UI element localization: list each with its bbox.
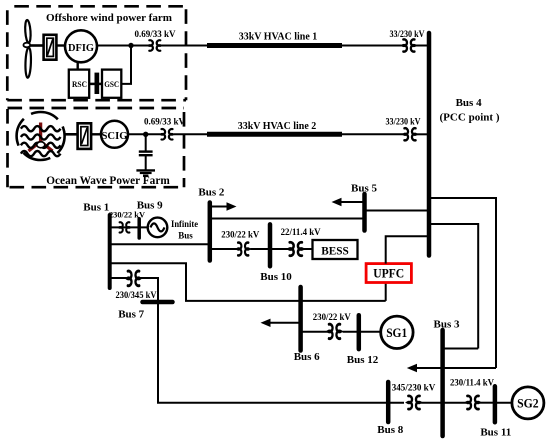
value label 230/345 kV (116, 290, 157, 300)
transformer T1 0.69/33 kV (149, 40, 161, 51)
svg-text:Bus 11: Bus 11 (480, 427, 511, 439)
ocean waves (21, 126, 61, 156)
svg-text:Offshore wind power farm: Offshore wind power farm (46, 12, 172, 24)
wave energy device circle (17, 112, 65, 160)
junction node SCIG output (143, 132, 148, 137)
wire feeder to Bus 3 (443, 348, 479, 350)
wire DFIG to RSC (76, 62, 78, 69)
bus bar Bus 1 (108, 215, 112, 288)
svg-text:0.69/33 kV: 0.69/33 kV (144, 117, 185, 127)
label: Bus 6 (294, 351, 320, 363)
transformer T11 230/11.4 kV (467, 396, 480, 409)
gearbox 1 (44, 35, 57, 60)
label: Bus 12 (347, 354, 379, 366)
label: Bus 3 (434, 319, 460, 331)
value label 0.69/33 kV (135, 29, 176, 39)
transformer T5 230/22 kV (119, 222, 130, 232)
svg-text:Bus 8: Bus 8 (377, 424, 403, 436)
wave turbine rotor (red spokes) (29, 123, 53, 152)
label: (PCC point ) (440, 112, 500, 124)
wire Bus 1 to Bus 2 (110, 243, 210, 245)
label: Bus 8 (377, 424, 403, 436)
svg-text:Bus 2: Bus 2 (198, 187, 224, 199)
wire T2 to HVAC line 2 (174, 133, 208, 135)
label: Offshore wind power farm (46, 12, 172, 24)
bus bar Bus 2 (208, 203, 213, 261)
transformer T10 345/230 kV (408, 396, 421, 409)
wire T4 to Bus 4 (417, 133, 430, 135)
bus bar Bus 7 (143, 300, 173, 305)
shunt capacitor (139, 134, 153, 170)
label: Bus 9 (137, 200, 163, 212)
label: Bus 5 (351, 183, 377, 195)
svg-text:SG2: SG2 (517, 396, 539, 411)
label: 33kV HVAC line 2 (238, 121, 317, 132)
value label 33/230 kV (line 2) (386, 117, 421, 127)
svg-text:Bus 3: Bus 3 (434, 319, 460, 331)
svg-text:Ocean Wave Power Farm: Ocean Wave Power Farm (46, 175, 170, 187)
svg-text:Bus 9: Bus 9 (137, 200, 163, 212)
wire SCIG to transformer T2 (128, 133, 160, 135)
svg-text:Bus 6: Bus 6 (294, 351, 320, 363)
value label 230/22 kV (T6) (221, 230, 259, 240)
value label 22/11.4 kV (281, 227, 321, 237)
transformer T4 33/230 kV (404, 128, 417, 140)
svg-text:Bus 7: Bus 7 (118, 308, 144, 320)
label: 33kV HVAC line 1 (239, 31, 318, 42)
wire Bus 12 to SG1 (359, 331, 380, 333)
svg-text:UPFC: UPFC (373, 267, 404, 281)
wire Bus 4 right inner feeder (429, 224, 478, 349)
svg-text:33/230 kV: 33/230 kV (386, 117, 421, 127)
svg-text:33/230 kV: 33/230 kV (390, 29, 425, 39)
label: Bus 1 (83, 202, 109, 214)
value label 230/11.4 kV (450, 378, 494, 388)
wire UPFC to Bus 4 (386, 236, 429, 263)
load arrow at Bus 5 (332, 198, 365, 206)
wire Bus 2 to T6 (210, 248, 237, 250)
wire DFIG to transformer T1 (97, 45, 148, 47)
wire UPFC shunt lower (385, 283, 387, 301)
label: Bus 10 (260, 271, 292, 283)
svg-text:BESS: BESS (321, 243, 349, 257)
svg-text:(PCC point ): (PCC point ) (440, 112, 500, 124)
ground (136, 170, 155, 175)
transformer T3 33/230 kV (403, 39, 416, 51)
device UPFC (366, 264, 411, 283)
wire Bus 4 right upper corner feeder (429, 198, 496, 368)
label: Bus 7 (118, 308, 144, 320)
svg-text:SCIG: SCIG (102, 131, 128, 142)
svg-text:230/22 kV: 230/22 kV (221, 230, 259, 240)
wire GSC to junction (121, 46, 131, 84)
svg-text:Bus 10: Bus 10 (260, 271, 292, 283)
wire T3 to Bus 4 (416, 45, 430, 47)
offshore wind farm boundary box (7, 6, 186, 100)
value label 230/22 kV (T9) (313, 312, 351, 322)
wire gearbox to DFIG (56, 44, 65, 46)
transformer T9 230/22 kV (328, 324, 341, 338)
value label 0.69/33 kV (wave) (144, 117, 185, 127)
label: Ocean Wave Power Farm (46, 175, 170, 187)
gearbox 2 (78, 123, 92, 149)
svg-text:0.69/33 kV: 0.69/33 kV (135, 29, 176, 39)
transformer T7 22/11.4 kV (289, 242, 303, 255)
svg-text:Infinite: Infinite (171, 220, 198, 230)
svg-text:230/345 kV: 230/345 kV (116, 290, 157, 300)
generator SG1 (381, 316, 413, 348)
converter GSC (102, 70, 121, 98)
bus bar Bus 4 (427, 33, 432, 256)
svg-text:22/11.4 kV: 22/11.4 kV (281, 227, 321, 237)
wire gearbox 2 to SCIG (91, 133, 101, 135)
svg-text:Bus 4: Bus 4 (456, 97, 482, 109)
svg-text:33kV HVAC line 1: 33kV HVAC line 1 (239, 31, 318, 42)
wire wave device to gearbox 2 (65, 133, 78, 136)
label: Bus 2 (198, 187, 224, 199)
svg-text:Bus: Bus (178, 231, 193, 241)
bus bar Bus 11 (493, 386, 498, 422)
value label 345/230 kV (392, 382, 436, 392)
wire HVAC line 1 to transformer T3 (342, 45, 402, 47)
transformer T6 230/22 kV (237, 243, 249, 256)
label: Bus 4 (456, 97, 482, 109)
value label 230/22 kV (T5) (109, 210, 145, 219)
svg-text:SG1: SG1 (386, 325, 407, 340)
svg-text:Bus 12: Bus 12 (347, 354, 379, 366)
wire T11 to Bus 11 (480, 402, 495, 404)
wire Bus 11 to SG2 (495, 402, 512, 404)
dc-link capacitor (95, 73, 100, 94)
generator DFIG (65, 30, 97, 62)
bus bar Bus 3 (440, 330, 445, 436)
infinite bus source (148, 218, 168, 238)
svg-text:230/11.4 kV: 230/11.4 kV (450, 378, 494, 388)
bus bar Bus 10 (268, 224, 273, 266)
wire T6 to Bus 10 (250, 248, 270, 250)
ocean wave farm boundary box (8, 108, 185, 187)
wire Bus 7 down to bottom feeder (158, 302, 404, 403)
wire Bus 1 to Bus 6 feeder (110, 263, 386, 301)
bus bar Bus 9 (137, 219, 141, 238)
load arrow at Bus 3 (407, 364, 496, 372)
label: Infinite Bus (171, 220, 198, 241)
svg-text:Bus 1: Bus 1 (83, 202, 109, 214)
wire Bus 2 to Bus 5 (210, 218, 365, 220)
wire T8 to Bus 7 (140, 278, 158, 302)
wind turbine blades (23, 20, 31, 78)
svg-text:RSC: RSC (72, 79, 87, 89)
wire T1 to HVAC line 1 (162, 45, 208, 47)
transformer T8 230/345 kV (127, 271, 140, 286)
value label 33/230 kV (390, 29, 425, 39)
load arrow at Bus 2 (210, 202, 237, 210)
wire T7 to BESS (303, 248, 313, 250)
svg-text:DFIG: DFIG (68, 42, 94, 54)
bus bar Bus 5 (362, 194, 367, 231)
wire T9 to Bus 12 (343, 331, 359, 333)
wire Bus 1 to T8 (110, 277, 127, 279)
load arrow at Bus 6 (261, 319, 301, 327)
dc-link wire RSC to GSC (89, 83, 102, 86)
bus bar Bus 8 (386, 382, 391, 422)
wire Bus 6 to T9 (301, 331, 329, 333)
wave turbine hub (37, 142, 45, 148)
33kV HVAC line 2 (thick) (207, 132, 342, 137)
transformer T2 0.69/33 kV (161, 129, 173, 140)
wire HVAC line 2 to transformer T4 (342, 133, 403, 135)
generator SG2 (512, 387, 544, 419)
33kV HVAC line 1 (thick) (207, 43, 342, 48)
wire Bus 10 to T7 (270, 248, 289, 250)
wire Bus 5 to Bus 4 (365, 210, 430, 212)
svg-text:345/230 kV: 345/230 kV (392, 382, 436, 392)
generator SCIG (101, 121, 128, 148)
bus bar Bus 12 (357, 315, 362, 349)
svg-text:Bus 5: Bus 5 (351, 183, 377, 195)
label: Bus 11 (480, 427, 511, 439)
turbine shaft wire (30, 44, 44, 47)
junction node DFIG output (128, 43, 133, 48)
svg-text:33kV HVAC line 2: 33kV HVAC line 2 (238, 121, 317, 132)
svg-text:GSC: GSC (104, 79, 119, 89)
wire T10 to Bus 3 (421, 402, 466, 404)
svg-text:230/22 kV: 230/22 kV (313, 312, 351, 322)
wire Bus 1 to T5 (110, 226, 148, 228)
battery BESS (313, 240, 358, 259)
converter RSC (69, 70, 89, 98)
bus bar Bus 6 (298, 287, 303, 351)
